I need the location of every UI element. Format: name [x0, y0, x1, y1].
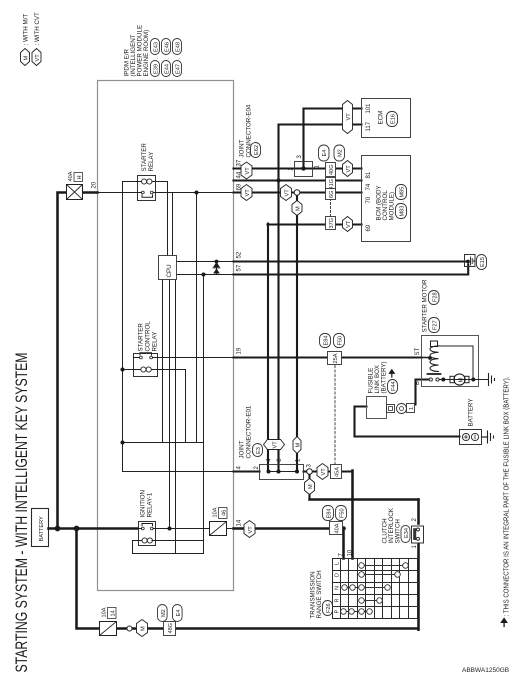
wire CPU to pin 57 — [177, 274, 234, 276]
motor M1 — [454, 374, 465, 385]
svg-text:25A: 25A — [333, 353, 339, 363]
footnote — [502, 619, 507, 627]
svg-text:69: 69 — [237, 183, 243, 190]
connector E44 — [162, 61, 171, 77]
svg-text:44: 44 — [237, 171, 243, 178]
svg-text:CONNECTOR-E04: CONNECTOR-E04 — [246, 104, 253, 157]
svg-text:ENGINE ROOM): ENGINE ROOM) — [143, 30, 150, 77]
diode D2 — [213, 262, 220, 267]
splice 40G — [326, 163, 336, 177]
svg-text:VT: VT — [346, 165, 352, 173]
svg-text:CONNECTOR-E01: CONNECTOR-E01 — [246, 405, 253, 458]
wire starter B — [408, 380, 429, 405]
wire CPU output 1 — [162, 280, 164, 443]
svg-text:M: M — [308, 484, 314, 489]
svg-text:F50: F50 — [338, 336, 344, 346]
2/3/1 junction box — [295, 162, 313, 177]
svg-text:D: D — [335, 573, 341, 577]
svg-text:41G: 41G — [329, 179, 335, 190]
VT hexagon before BCM69 — [343, 217, 353, 232]
wire contact to motor — [439, 379, 452, 381]
svg-text:52: 52 — [237, 251, 243, 258]
svg-text:(BATTERY): (BATTERY) — [381, 361, 388, 393]
svg-text:CONTROL: CONTROL — [145, 321, 152, 352]
wire bus to IPDM pin 4 — [123, 471, 234, 473]
wire starter control relay coil feed — [123, 369, 134, 371]
battery BATTERY (lower) — [460, 430, 482, 445]
svg-text:6G: 6G — [329, 191, 335, 198]
svg-text:46: 46 — [222, 510, 228, 516]
splice boxes 40G 41G 6G 37G — [326, 163, 336, 230]
svg-text:E62: E62 — [254, 145, 260, 155]
wire 40A col to TRS pin7 — [342, 528, 345, 559]
svg-text:VT: VT — [285, 189, 291, 197]
svg-text:: THIS CONNECTOR IS AN INTEGRA: : THIS CONNECTOR IS AN INTEGRAL PART OF … — [502, 377, 511, 617]
wire starter relay coil return — [156, 181, 168, 183]
wire fuse14 to trunk — [117, 627, 127, 630]
junction dot motor feed — [441, 378, 445, 382]
svg-text:E34: E34 — [404, 528, 410, 538]
svg-text:RELAY-1: RELAY-1 — [147, 492, 154, 517]
svg-text:: WITH CVT: : WITH CVT — [34, 12, 41, 46]
svg-text:VT: VT — [248, 526, 254, 534]
legend M hexagon — [21, 49, 42, 66]
svg-text:VT: VT — [35, 54, 41, 62]
wire CPU output 2 to ignition relay coil node — [169, 280, 171, 529]
wire internal bus to pin 57 node — [203, 275, 205, 554]
solenoid terminal box — [431, 341, 438, 347]
svg-text:M85: M85 — [400, 187, 406, 198]
svg-text:40G: 40G — [329, 164, 335, 175]
svg-text:VT: VT — [245, 167, 251, 175]
svg-text:E39: E39 — [154, 64, 160, 74]
wire bus cross link — [123, 442, 204, 444]
svg-text:M: M — [296, 206, 302, 211]
svg-text:M2: M2 — [338, 149, 344, 157]
solenoid coil — [422, 357, 430, 359]
diode D1 — [213, 268, 220, 273]
svg-text:37G: 37G — [329, 218, 335, 229]
junction dot — [74, 526, 80, 532]
svg-text:M83: M83 — [400, 206, 406, 217]
wire pin37 col — [234, 167, 362, 169]
VT hexagon on pin69 col (2nd) — [281, 185, 292, 201]
IPDM connector ovals E39 E44 E47 / E43 E46 E48 — [151, 39, 182, 77]
splice 6G — [326, 189, 336, 200]
svg-text:VT: VT — [273, 441, 279, 449]
svg-text:ABBWA1250GB: ABBWA1250GB — [462, 667, 509, 674]
svg-text:E43: E43 — [154, 42, 160, 52]
fusible link 40A H (x-box) — [67, 185, 83, 200]
junction dot in E15 — [466, 260, 470, 264]
M hexagon on E01 pin1 wire — [292, 201, 302, 216]
wire M branch — [308, 475, 310, 500]
svg-text:RELAY: RELAY — [152, 332, 159, 352]
svg-text:37: 37 — [237, 159, 243, 166]
connector E39 — [151, 61, 160, 77]
option split circle — [127, 626, 132, 631]
VT hexagon + 45A below E01 — [317, 464, 328, 480]
wire ignition relay coil feed — [133, 540, 139, 542]
svg-text:48G: 48G — [168, 623, 174, 634]
VT hexagon pin 69 — [241, 185, 252, 201]
solenoid contacts — [429, 378, 432, 381]
connector E46 — [162, 39, 171, 55]
VT hexagon before BCM81 — [343, 161, 353, 177]
M hexagon on trunk — [137, 620, 148, 637]
svg-text:RANGE SWITCH: RANGE SWITCH — [316, 570, 323, 618]
svg-text:E16: E16 — [391, 114, 397, 124]
svg-text:19: 19 — [237, 347, 243, 354]
svg-text:BATTERY: BATTERY — [39, 516, 45, 542]
ground starter — [489, 374, 495, 386]
ground symbol battery — [488, 431, 494, 443]
svg-text:70: 70 — [366, 196, 372, 203]
svg-text:101: 101 — [366, 103, 372, 114]
fuse 46 10A — [210, 522, 227, 536]
svg-text:81: 81 — [366, 171, 372, 178]
svg-text:SWITCH: SWITCH — [395, 519, 402, 543]
svg-text:: WITH M/T: : WITH M/T — [23, 14, 30, 46]
svg-text:STARTER: STARTER — [141, 143, 148, 172]
svg-text:40A: 40A — [335, 523, 341, 533]
svg-text:JOINT: JOINT — [239, 440, 246, 458]
wire internal bus to pin 4 — [122, 182, 124, 472]
svg-text:10A: 10A — [102, 607, 108, 617]
connector E48 — [173, 39, 182, 55]
fuse 14 10A — [100, 622, 117, 636]
svg-text:F50: F50 — [340, 508, 346, 518]
solenoid core bar — [428, 373, 441, 375]
wire CPU to starter relay switch — [172, 193, 174, 256]
connector M85 — [396, 185, 407, 200]
svg-text:14: 14 — [237, 519, 243, 526]
wire fusible box to battery — [355, 407, 460, 437]
wire CPU to starter relay coil — [167, 182, 169, 256]
svg-text:R: R — [335, 599, 341, 603]
grid — [333, 559, 418, 619]
wire trunk to clutch — [417, 544, 420, 630]
wire clutch to feed — [417, 500, 420, 524]
wire CPU to pin 52 — [177, 261, 234, 263]
junction dot pin44/ECM117 — [276, 178, 280, 182]
svg-text:E47: E47 — [176, 64, 182, 74]
wire battery down — [49, 527, 139, 530]
wire ignition relay switch to fuse 46 — [156, 528, 210, 530]
starter motor box — [422, 336, 479, 387]
wire pin57 col to E15 — [234, 265, 469, 275]
svg-text:P: P — [335, 610, 341, 614]
motor M1 terminal tab 2 — [465, 376, 470, 382]
junction dot — [55, 526, 61, 532]
wire starter control relay coil return — [185, 370, 187, 443]
M hexagon on E01 pin1 wire — [293, 437, 301, 454]
thick wires — [49, 193, 419, 630]
wire starter relay switch branch — [196, 193, 198, 443]
svg-text:VT: VT — [245, 189, 251, 197]
wire fuse H to pin 20 — [83, 191, 98, 194]
junction dot diode/52 — [215, 260, 219, 264]
wire battery feed right to fuse H — [58, 193, 67, 529]
svg-text:10A: 10A — [213, 507, 219, 517]
svg-text:F26: F26 — [326, 603, 332, 613]
connector chain below — [387, 405, 395, 413]
wire ECM101 branch — [304, 109, 362, 169]
svg-text:E3: E3 — [256, 447, 262, 454]
junction dot ECM101 — [301, 166, 305, 170]
svg-text:74: 74 — [366, 183, 372, 190]
svg-text:B: B — [415, 381, 421, 385]
wire E01 pin1 row — [296, 193, 298, 472]
wire pin69 col — [234, 191, 362, 193]
svg-text:117: 117 — [366, 121, 372, 131]
IPDM E/R box — [98, 81, 234, 591]
svg-text:10: 10 — [348, 549, 354, 556]
wire battery branch left — [77, 529, 100, 629]
BCM box — [362, 156, 411, 242]
VT hexagon on E01 wires — [264, 440, 285, 450]
option split circle pin69 — [294, 190, 300, 196]
connector ovals E4 M2 (right wire) — [319, 145, 330, 161]
svg-text:F28: F28 — [433, 292, 439, 302]
splice 41G — [326, 178, 336, 191]
svg-text:E84: E84 — [324, 336, 330, 346]
wire pin 20 to starter relay switch — [98, 192, 138, 194]
ECM box — [362, 99, 411, 138]
svg-text:57: 57 — [237, 264, 243, 271]
svg-text:E46: E46 — [165, 42, 171, 52]
connector M83 — [396, 204, 407, 219]
svg-text:F44: F44 — [391, 381, 397, 391]
diode bridge wire — [216, 262, 218, 275]
svg-text:E4: E4 — [176, 610, 182, 617]
wire starter control relay coil lower stub — [158, 369, 186, 371]
svg-text:69: 69 — [366, 224, 372, 231]
svg-text:M: M — [296, 443, 302, 448]
svg-text:ECM: ECM — [378, 111, 385, 125]
VT wide hexagon ECM wires — [343, 101, 353, 134]
wire pin14 col — [234, 527, 245, 530]
wire fuse 46 to pin 14 — [227, 528, 234, 530]
splice 48G — [164, 622, 176, 636]
junction dot motor return — [471, 378, 475, 382]
wire pin44 col — [234, 179, 362, 181]
svg-text:14: 14 — [111, 610, 117, 616]
wire ignition relay coil loop top — [132, 541, 134, 554]
svg-text:IGNITION: IGNITION — [140, 490, 147, 518]
wire pin4 col — [234, 470, 260, 472]
wire starter control relay switch to pin 19 — [158, 357, 234, 359]
VT hexagon pins 37/44 — [241, 162, 252, 179]
svg-text:JOINT: JOINT — [239, 139, 246, 157]
IPDM E/R label — [124, 25, 151, 77]
svg-text:E44: E44 — [165, 64, 171, 74]
svg-text:STARTING SYSTEM - WITH INTELLI: STARTING SYSTEM - WITH INTELLIGENT KEY S… — [13, 353, 31, 673]
svg-text:E48: E48 — [176, 42, 182, 52]
motor M1 terminal tab — [450, 376, 455, 382]
wire pin52 col to E15 — [234, 260, 466, 262]
svg-text:CPU: CPU — [166, 264, 173, 277]
wire CPU output 3 — [175, 280, 177, 554]
grid circles — [341, 563, 409, 615]
connector E47 — [173, 61, 182, 77]
svg-text:20: 20 — [92, 181, 98, 188]
CPU box — [159, 256, 177, 280]
svg-text:1: 1 — [409, 407, 415, 410]
wire E01 pin4 row — [267, 224, 269, 472]
svg-text:F27: F27 — [433, 320, 439, 330]
connector F27 — [429, 318, 440, 333]
dashed 6G-37G — [330, 200, 332, 217]
wire ignition relay coil loop left — [133, 553, 204, 555]
ground symbol E15 — [471, 257, 474, 265]
svg-text:STARTER MOTOR: STARTER MOTOR — [422, 279, 429, 332]
svg-text:STARTER: STARTER — [138, 323, 145, 352]
wire 37G col to BCM69 — [268, 223, 362, 225]
svg-text:M2: M2 — [161, 609, 167, 617]
wire E01 pin6 row / ECM117 branch — [279, 125, 362, 472]
svg-text:ST: ST — [415, 347, 421, 355]
battery BATTERY box — [32, 509, 49, 547]
svg-text:E4: E4 — [322, 150, 328, 157]
svg-text:40A: 40A — [68, 171, 74, 181]
wire starter relay coil feed — [123, 181, 138, 183]
svg-text:M: M — [141, 626, 147, 631]
svg-text:VT: VT — [346, 113, 352, 121]
svg-text:M: M — [24, 56, 30, 61]
svg-text:E15: E15 — [480, 257, 486, 267]
svg-text:MODULE): MODULE) — [389, 192, 396, 221]
solenoid winding — [430, 346, 439, 372]
wire battery to ground — [482, 436, 488, 438]
wire ignition relay coil return — [156, 540, 204, 542]
svg-text:45A: 45A — [335, 467, 341, 477]
svg-text:RELAY: RELAY — [148, 152, 155, 172]
dashed 45A to 25A — [334, 365, 336, 465]
wire motor to ground — [453, 379, 489, 381]
svg-text:VT: VT — [321, 468, 327, 476]
ground terminal box E15 — [465, 255, 476, 267]
pin19 wire items: 25A + ovals E84 F50 — [328, 352, 342, 365]
svg-text:N: N — [335, 586, 341, 590]
connector E15 — [477, 255, 487, 270]
wire 45A to TRS pin10 — [351, 471, 354, 559]
splice 37G — [326, 217, 336, 230]
M hexagon branch — [305, 479, 315, 495]
svg-text:BATTERY: BATTERY — [468, 399, 475, 427]
wire pin19 col to starter — [234, 356, 422, 358]
wire starter relay switch to pin 69 — [156, 192, 234, 194]
connector ovals M2 E4 — [158, 605, 168, 622]
solenoid hold-in loop — [438, 346, 474, 380]
svg-text:VT: VT — [346, 220, 352, 228]
pin14 wire items — [244, 521, 255, 538]
svg-text:L: L — [335, 562, 341, 565]
svg-text:E84: E84 — [327, 509, 333, 519]
connector F28 — [429, 291, 440, 305]
svg-text:H: H — [77, 175, 83, 179]
connector E43 — [151, 39, 160, 55]
connector E16 — [387, 112, 398, 127]
junction dot ST/coil — [428, 356, 432, 360]
